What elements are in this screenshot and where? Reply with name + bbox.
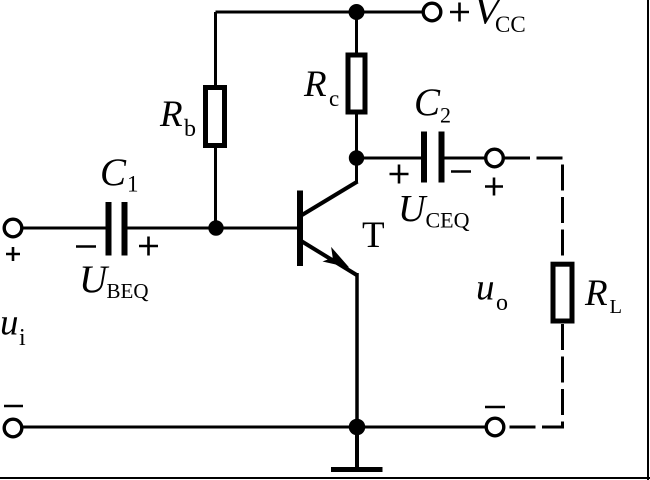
svg-text:R: R bbox=[303, 64, 327, 105]
svg-text:R: R bbox=[584, 273, 608, 314]
svg-text:b: b bbox=[184, 116, 196, 142]
svg-text:BEQ: BEQ bbox=[107, 279, 149, 303]
svg-text:CC: CC bbox=[495, 12, 526, 37]
svg-text:u: u bbox=[476, 268, 495, 309]
svg-text:U: U bbox=[79, 258, 110, 301]
svg-text:u: u bbox=[0, 303, 19, 344]
svg-text:L: L bbox=[610, 296, 623, 318]
svg-text:T: T bbox=[362, 215, 385, 256]
svg-text:2: 2 bbox=[440, 103, 451, 128]
svg-text:U: U bbox=[398, 188, 428, 230]
svg-text:i: i bbox=[19, 325, 26, 351]
svg-text:1: 1 bbox=[127, 172, 139, 197]
svg-text:C: C bbox=[414, 81, 441, 124]
svg-text:CEQ: CEQ bbox=[426, 208, 470, 233]
svg-text:o: o bbox=[496, 290, 508, 316]
svg-text:c: c bbox=[329, 86, 339, 111]
svg-text:C: C bbox=[100, 151, 127, 194]
svg-text:R: R bbox=[159, 94, 183, 135]
